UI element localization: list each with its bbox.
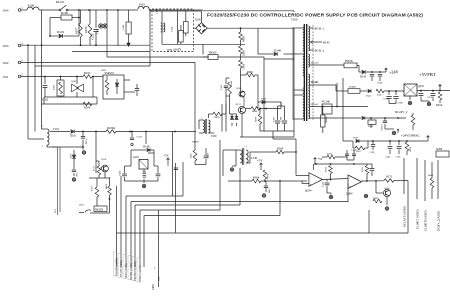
svg-text:C109: C109: [137, 136, 143, 139]
svg-text:R078: R078: [242, 50, 245, 56]
svg-text:R089: R089: [255, 116, 258, 122]
svg-text:R140B: R140B: [349, 86, 356, 89]
svg-text:D141: D141: [360, 75, 367, 79]
svg-text:Q136: Q136: [236, 87, 242, 90]
svg-text:D136: D136: [261, 98, 267, 101]
svg-text:R446: R446: [428, 174, 434, 177]
svg-text:R456: R456: [215, 116, 221, 119]
svg-text:-: -: [349, 177, 350, 180]
svg-text:DC24V_2: DC24V_2: [395, 110, 408, 114]
svg-text:F100: F100: [28, 4, 35, 8]
svg-text:R345: R345: [277, 147, 284, 151]
svg-text:BD142: BD142: [311, 103, 319, 106]
svg-text:+5V: +5V: [257, 159, 263, 163]
svg-text:R100A: R100A: [107, 126, 116, 130]
svg-text:R101: R101: [53, 84, 56, 90]
svg-text:R076: R076: [84, 26, 88, 33]
svg-text:C184: C184: [280, 116, 283, 122]
svg-text:R084: R084: [252, 110, 258, 113]
svg-text:T101: T101: [53, 127, 60, 131]
svg-text:C186: C186: [268, 188, 271, 194]
svg-text:R169: R169: [92, 186, 94, 191]
svg-text:+5V: +5V: [164, 155, 169, 158]
svg-text:RL101: RL101: [56, 0, 65, 4]
svg-text:BC45: BC45: [323, 41, 330, 45]
svg-text:TH100: TH100: [209, 51, 218, 54]
svg-text:FC320/325/FC230 DC CONTROLLER/: FC320/325/FC230 DC CONTROLLER/DC POWER S…: [207, 13, 423, 19]
svg-text:C1200: C1200: [380, 124, 383, 131]
svg-text:R077: R077: [75, 27, 79, 34]
svg-text:1: 1: [239, 146, 240, 148]
svg-text:L101: L101: [96, 28, 99, 34]
svg-text:C946: C946: [377, 82, 383, 85]
svg-text:C436: C436: [119, 170, 122, 176]
svg-text:R171: R171: [386, 175, 393, 179]
svg-text:J212: J212: [55, 209, 57, 213]
svg-text:D167: D167: [353, 137, 359, 140]
svg-text:SSR101: SSR101: [105, 71, 115, 75]
svg-text:D147: D147: [366, 95, 372, 98]
svg-text:R254: R254: [436, 103, 443, 107]
svg-text:C458: C458: [207, 152, 210, 158]
svg-text:THL: THL: [158, 276, 161, 281]
svg-text:D100: D100: [195, 19, 201, 22]
svg-text:Q163: Q163: [133, 156, 139, 159]
svg-text:T100: T100: [291, 18, 298, 22]
svg-text:D119: D119: [57, 30, 64, 34]
svg-text:⚊: ⚊: [152, 266, 156, 269]
svg-text:RELAYS (A508): RELAYS (A508): [403, 206, 407, 227]
svg-text:C134: C134: [171, 26, 174, 32]
svg-text:Q150: Q150: [418, 85, 424, 88]
svg-text:+24V: +24V: [389, 70, 399, 75]
svg-text:L102: L102: [42, 98, 49, 102]
svg-text:LTSC (A505): LTSC (A505): [125, 264, 128, 279]
svg-text:C125: C125: [91, 33, 95, 40]
svg-text:T130: T130: [251, 156, 258, 160]
svg-text:BC_U0: BC_U0: [311, 82, 319, 84]
svg-text:Q284: Q284: [346, 192, 353, 196]
svg-text:D101: D101: [70, 134, 77, 138]
svg-text:R336: R336: [266, 174, 269, 180]
svg-text:BC43_1: BC43_1: [315, 27, 325, 31]
svg-text:J101: J101: [3, 75, 9, 79]
svg-text:C147: C147: [75, 172, 78, 178]
svg-text:R299: R299: [437, 148, 443, 151]
svg-text:R104: R104: [84, 106, 91, 110]
svg-text:C104: C104: [85, 139, 88, 145]
svg-text:R304: R304: [253, 176, 260, 180]
svg-text:PB401: PB401: [325, 116, 328, 123]
svg-text:R317: R317: [356, 150, 362, 153]
svg-text:T450: T450: [211, 135, 217, 138]
svg-text:D148: D148: [143, 145, 150, 149]
svg-text:F9618: F9618: [345, 59, 353, 63]
svg-text:DCHV_2(A505): DCHV_2(A505): [437, 211, 441, 231]
svg-text:PROTECT(A505): PROTECT(A505): [134, 261, 137, 281]
svg-text:ST_SW (A506): ST_SW (A506): [120, 260, 123, 277]
svg-text:4: 4: [246, 146, 247, 148]
svg-text:C900: C900: [398, 102, 404, 105]
svg-text:J102: J102: [3, 61, 9, 65]
svg-text:PC140: PC140: [322, 100, 330, 104]
svg-text:J202: J202: [79, 204, 84, 207]
svg-text:D140: D140: [274, 49, 281, 53]
svg-text:HP506: HP506: [192, 141, 199, 144]
svg-text:R100: R100: [61, 11, 68, 15]
svg-text:INTER (A506): INTER (A506): [130, 263, 133, 279]
svg-text:BD_UP: BD_UP: [311, 62, 319, 65]
svg-text:R103: R103: [84, 71, 91, 75]
svg-text:Q137: Q137: [236, 103, 242, 106]
svg-text:J104: J104: [3, 8, 9, 12]
svg-text:BC43_2: BC43_2: [315, 49, 325, 53]
svg-text:ELIMIT (A505): ELIMIT (A505): [416, 209, 420, 229]
svg-text:R314: R314: [327, 153, 333, 156]
svg-text:R466: R466: [373, 197, 379, 200]
svg-text:+5VFBT: +5VFBT: [419, 72, 436, 77]
svg-text:+5V: +5V: [318, 157, 324, 161]
svg-text:Q138: Q138: [384, 187, 390, 190]
svg-text:D117: D117: [69, 154, 72, 160]
svg-text:R096: R096: [242, 36, 245, 42]
svg-text:R188: R188: [105, 184, 108, 190]
svg-text:Q102: Q102: [71, 80, 77, 83]
svg-text:Q184: Q184: [305, 189, 312, 193]
svg-text:C140: C140: [122, 24, 125, 30]
svg-text:R090: R090: [247, 71, 253, 74]
svg-text:NEON: NEON: [95, 207, 104, 211]
svg-text:R091: R091: [242, 64, 245, 70]
svg-text:R457: R457: [190, 152, 193, 158]
svg-text:C213: C213: [322, 181, 325, 187]
svg-text:C130: C130: [220, 84, 223, 90]
svg-text:F101: F101: [139, 3, 146, 7]
svg-text:C188: C188: [384, 98, 390, 101]
svg-text:Q114: Q114: [101, 158, 107, 161]
svg-text:-: -: [310, 175, 311, 178]
svg-text:R215: R215: [361, 166, 364, 172]
svg-text:5: 5: [201, 118, 202, 120]
svg-text:J103: J103: [3, 44, 9, 48]
svg-text:R140: R140: [230, 80, 233, 86]
svg-text:R303: R303: [325, 166, 328, 172]
svg-text:+24VUNREG: +24VUNREG: [401, 134, 421, 138]
svg-text:THSW (A508): THSW (A508): [139, 266, 142, 282]
svg-text:J400: J400: [151, 284, 155, 290]
svg-text:C185: C185: [273, 116, 276, 122]
svg-text:ELIMITE(A505): ELIMITE(A505): [424, 210, 428, 231]
